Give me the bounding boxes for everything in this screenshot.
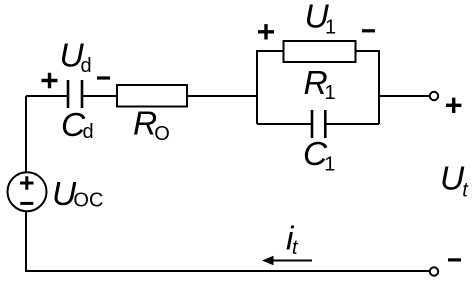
svg-text:OC: OC <box>73 190 103 212</box>
svg-text:O: O <box>154 123 170 145</box>
wire: parallel group left vertical <box>256 51 258 124</box>
polarity plus of Ud <box>42 73 58 88</box>
current arrow it <box>262 256 312 266</box>
svg-text:d: d <box>83 121 94 143</box>
svg-text:d: d <box>81 55 92 77</box>
resistor Ro <box>117 85 187 107</box>
label Cd <box>61 107 94 144</box>
wire: top rail right segment from R1 <box>355 50 380 52</box>
polarity minus of U1 <box>362 29 375 32</box>
label it <box>286 221 299 259</box>
resistor R1 <box>284 41 356 62</box>
label R1 <box>304 65 336 104</box>
wire: bottom rail right segment from C1 <box>326 123 379 125</box>
wire: between Cd and resistor Ro <box>82 95 117 97</box>
label C1 <box>303 136 335 176</box>
polarity plus at output terminal <box>446 98 461 113</box>
wire: between Ro and RC parallel group <box>187 95 258 97</box>
label Ud <box>60 38 92 78</box>
terminal: negative output <box>430 267 438 275</box>
svg-text:1: 1 <box>324 154 335 176</box>
wire: bottom rail left segment to capacitor C1 <box>257 123 311 125</box>
wire: top-left horizontal segment from corner to capacitor Cd <box>26 95 67 97</box>
capacitor Cd <box>68 80 82 108</box>
label U1 <box>305 0 337 39</box>
wire: bottom horizontal rail to negative terminal <box>25 270 430 272</box>
label Ut <box>440 161 469 202</box>
label U_OC <box>52 176 103 213</box>
voltage source U_OC <box>8 172 47 211</box>
svg-text:1: 1 <box>325 82 336 104</box>
label Ro <box>133 106 170 146</box>
wire: parallel group right vertical <box>378 51 380 124</box>
polarity minus at output terminal <box>448 258 461 261</box>
polarity plus of U1 <box>258 24 274 39</box>
polarity minus of Ud <box>97 76 110 79</box>
wire: left vertical rail (voltage source down to bottom corner) <box>25 212 27 272</box>
wire: output wire from parallel group to positive terminal <box>379 95 430 97</box>
capacitor C1 <box>312 110 325 138</box>
svg-text:1: 1 <box>325 17 336 39</box>
wire: top rail left segment to resistor R1 <box>256 50 284 52</box>
wire: left vertical rail (top corner down to voltage source) <box>25 96 27 172</box>
terminal: positive output <box>430 92 438 100</box>
